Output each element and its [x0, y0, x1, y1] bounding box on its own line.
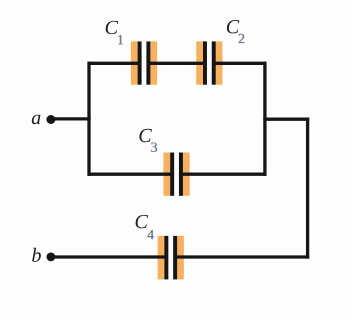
wire: right vertical riser of parallel section: [263, 62, 266, 176]
wire: outer right vertical drop: [306, 118, 309, 259]
capacitor C4 dielectric bands: [158, 236, 184, 280]
node a terminal dot: [46, 115, 55, 124]
wire: top branch left segment (left corner to C1): [88, 62, 141, 65]
capacitor C3 dielectric bands: [163, 153, 189, 196]
wire: bottom branch right segment (C4 to outer right wire): [174, 255, 309, 258]
capacitor C2 plates: [203, 41, 216, 84]
label C1: [106, 21, 124, 45]
wire: terminal a lead: [51, 117, 91, 120]
label C3: [139, 129, 157, 152]
wire: top branch middle segment (C1 to C2): [148, 62, 206, 65]
label C4: [136, 215, 155, 239]
capacitor C1 plates: [138, 41, 151, 84]
capacitor C2 dielectric bands: [196, 41, 222, 84]
wire: top branch right segment (C2 to right corner): [213, 62, 267, 65]
wire: junction lead from right riser to outer right wire: [263, 118, 309, 121]
wire: middle branch left segment (left riser to C3): [88, 173, 173, 176]
label b (terminal name, italic serif glyph outline): [32, 248, 41, 262]
wire: middle branch right segment (C3 to right riser): [180, 173, 266, 176]
label a (terminal name, italic serif glyph outline): [32, 115, 41, 125]
wire: left vertical riser of parallel section: [87, 62, 90, 176]
capacitor C4 plates: [164, 236, 177, 280]
capacitor C1 dielectric bands: [131, 41, 157, 84]
label C2: [227, 20, 245, 43]
node b terminal dot: [47, 253, 56, 262]
capacitor C3 plates: [170, 153, 183, 196]
wire: bottom branch left segment (terminal b to C4): [51, 255, 167, 258]
